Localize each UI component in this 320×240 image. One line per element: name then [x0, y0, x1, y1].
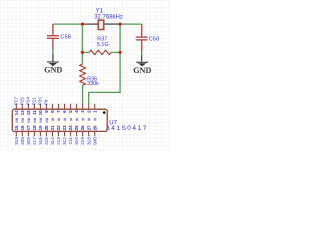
svg-text:20: 20: [44, 125, 49, 131]
svg-text:330k: 330k: [87, 81, 99, 87]
svg-text:32.768kHz: 32.768kHz: [94, 14, 123, 20]
svg-text:28: 28: [92, 125, 97, 131]
svg-text:21: 21: [50, 125, 55, 131]
svg-text:11: 11: [32, 110, 37, 115]
svg-text:13: 13: [20, 110, 25, 116]
svg-text:P24: P24: [26, 97, 31, 106]
svg-text:16: 16: [20, 125, 25, 131]
svg-text:P21: P21: [32, 97, 37, 106]
svg-text:GND: GND: [44, 65, 62, 74]
svg-text:P25: P25: [20, 97, 25, 106]
svg-text:318: 318: [86, 137, 91, 145]
svg-text:P27: P27: [14, 97, 19, 106]
svg-text:3: 3: [80, 110, 85, 113]
svg-text:215: 215: [44, 137, 49, 145]
svg-text:7: 7: [56, 110, 61, 113]
svg-text:319: 319: [14, 137, 19, 145]
svg-text:2: 2: [86, 110, 91, 113]
svg-text:19: 19: [38, 125, 43, 131]
svg-text:GND: GND: [133, 66, 151, 75]
svg-text:4: 4: [74, 110, 79, 113]
svg-text:C50: C50: [149, 37, 160, 43]
svg-text:22: 22: [56, 125, 61, 131]
svg-text:318: 318: [26, 137, 31, 145]
svg-text:8: 8: [50, 110, 55, 113]
svg-text:6: 6: [62, 110, 67, 113]
svg-text:26: 26: [80, 125, 85, 131]
svg-text:25: 25: [74, 125, 79, 131]
svg-text:17: 17: [26, 125, 31, 131]
svg-text:14: 14: [14, 110, 19, 116]
svg-text:219: 219: [80, 137, 85, 145]
svg-text:341S0417: 341S0417: [106, 125, 148, 132]
svg-text:C56: C56: [60, 35, 71, 41]
svg-text:211: 211: [68, 137, 73, 145]
svg-text:990: 990: [92, 137, 97, 145]
svg-text:209: 209: [20, 137, 25, 145]
svg-text:24: 24: [68, 125, 73, 131]
svg-text:15: 15: [14, 125, 19, 131]
svg-text:10: 10: [38, 110, 43, 116]
svg-text:18: 18: [32, 125, 37, 131]
svg-text:9: 9: [44, 110, 49, 113]
svg-text:5.1G: 5.1G: [97, 42, 109, 48]
svg-text:310: 310: [74, 137, 79, 145]
svg-text:314: 314: [50, 137, 55, 145]
svg-text:312: 312: [62, 137, 67, 145]
svg-text:23: 23: [62, 125, 67, 131]
svg-text:217: 217: [32, 137, 37, 145]
svg-text:27: 27: [86, 125, 91, 131]
svg-text:1: 1: [92, 110, 97, 113]
svg-text:12: 12: [26, 110, 31, 116]
svg-text:5: 5: [68, 110, 73, 113]
svg-text:316: 316: [38, 137, 43, 145]
svg-text:213: 213: [56, 137, 61, 145]
svg-text:P9: P9: [44, 99, 49, 105]
svg-text:P20: P20: [38, 97, 43, 106]
